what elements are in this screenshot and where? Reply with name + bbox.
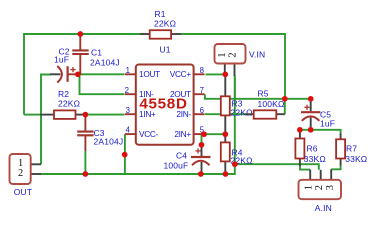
svg-text:V.IN: V.IN — [249, 50, 265, 60]
svg-text:R6: R6 — [307, 144, 318, 154]
svg-text:6: 6 — [200, 106, 204, 115]
svg-text:2: 2 — [125, 86, 129, 95]
capacitor C4 — [164, 145, 211, 174]
wire U1 pin5 row — [204, 133, 226, 135]
svg-text:VCC+: VCC+ — [170, 69, 192, 79]
svg-text:2A104J: 2A104J — [94, 137, 124, 147]
svg-text:1: 1 — [304, 185, 315, 190]
svg-text:A.IN: A.IN — [315, 203, 332, 213]
svg-text:R5: R5 — [258, 88, 269, 98]
node rail R4 — [223, 171, 229, 177]
capacitor C1 — [72, 34, 119, 75]
connector OUT — [10, 154, 42, 197]
svg-text:1OUT: 1OUT — [139, 69, 160, 79]
wire R6 bottom jog to A.IN pin1 — [300, 164, 310, 169]
op-amp U1 — [125, 44, 205, 145]
svg-text:C4: C4 — [176, 151, 187, 161]
resistor R7 — [336, 134, 367, 166]
node R2/C3/pin3 — [83, 112, 89, 118]
capacitor C2 — [50, 46, 77, 82]
wire node R2/C3 to pin3 — [84, 114, 125, 116]
node R3 bottom / R4 top — [222, 131, 228, 137]
wire U1 pin4 drop to ground rail — [124, 134, 126, 174]
svg-text:1uF: 1uF — [320, 118, 335, 128]
node C2/C1/pin1 — [75, 71, 81, 77]
svg-text:100uF: 100uF — [164, 161, 189, 171]
capacitor C5 — [301, 99, 335, 130]
node pin8 / V.IN1 / R3 — [222, 72, 228, 78]
node R6 top — [297, 127, 303, 133]
svg-text:VCC-: VCC- — [139, 129, 159, 139]
svg-text:33KΩ: 33KΩ — [304, 154, 326, 164]
wire V.IN pin2 vertical top part — [234, 76, 236, 101]
wire pin5 drop to C4 — [201, 134, 203, 145]
wire C3 bottom to ground rail — [84, 150, 86, 174]
wire feedback branch to U1 pin2 — [80, 75, 125, 94]
svg-text:2: 2 — [18, 168, 23, 179]
wire top rail left segment — [24, 34, 140, 115]
wire R2 row left — [24, 114, 40, 116]
node top rail / C1 — [77, 31, 83, 37]
wire C2 node to U1 pin1 — [79, 73, 125, 75]
wire ground rail bottom — [41, 76, 235, 175]
node pin4 drop — [122, 152, 128, 158]
svg-text:4558D: 4558D — [139, 95, 187, 112]
resistor R2 — [40, 89, 85, 119]
svg-text:2A104J: 2A104J — [90, 57, 120, 67]
svg-text:8: 8 — [200, 66, 204, 75]
svg-text:22KΩ: 22KΩ — [154, 18, 176, 28]
resistor R6 — [295, 130, 325, 166]
node pin5 junction — [201, 131, 207, 137]
resistor R1 — [140, 9, 181, 39]
svg-text:U1: U1 — [160, 44, 171, 54]
svg-text:R1: R1 — [155, 9, 166, 19]
wire R7 bottom jog to A.IN pin3 — [331, 165, 340, 169]
node ground branch — [232, 161, 238, 167]
wire top rail right segment — [181, 34, 285, 99]
svg-text:100KΩ: 100KΩ — [258, 99, 285, 109]
svg-text:33KΩ: 33KΩ — [345, 154, 367, 164]
resistor R4 — [221, 134, 253, 174]
wire U1 pin8 to V.IN pin1 — [206, 73, 226, 75]
svg-text:R7: R7 — [346, 144, 357, 154]
svg-text:22KΩ: 22KΩ — [58, 99, 80, 109]
wire U1 pin6 to R5 left — [205, 113, 245, 115]
svg-text:1: 1 — [217, 52, 228, 57]
node rail C4 — [198, 171, 204, 177]
capacitor C3 — [77, 115, 123, 151]
node C5 top — [308, 96, 314, 102]
resistor R3 — [221, 74, 253, 134]
svg-text:3: 3 — [325, 185, 336, 190]
svg-text:C1: C1 — [91, 47, 102, 57]
node C5 bottom — [308, 127, 314, 133]
svg-text:2: 2 — [228, 52, 239, 57]
svg-text:3: 3 — [126, 106, 130, 115]
node rail C3 — [83, 171, 89, 177]
wire R6/C5 row to R7 — [300, 130, 341, 135]
svg-text:2IN+: 2IN+ — [174, 129, 191, 139]
svg-text:22KΩ: 22KΩ — [231, 107, 253, 117]
resistor R5 — [245, 88, 285, 118]
wire ground branch to A.IN pin2 — [235, 164, 319, 170]
wire U1 pin7 net to C5 — [205, 94, 311, 99]
node pin7 net cross — [282, 96, 288, 102]
svg-text:OUT: OUT — [14, 187, 32, 197]
connector V.IN — [215, 44, 266, 76]
node C4 top — [199, 142, 205, 148]
svg-text:2: 2 — [314, 185, 325, 190]
wire node to R5 right — [284, 99, 286, 115]
svg-text:1: 1 — [126, 66, 130, 75]
svg-text:4: 4 — [126, 126, 131, 135]
svg-text:1uF: 1uF — [54, 55, 69, 65]
svg-text:7: 7 — [200, 86, 204, 95]
connector A.IN — [299, 169, 342, 213]
wire OUT pin1 riser to C2 — [41, 75, 51, 165]
